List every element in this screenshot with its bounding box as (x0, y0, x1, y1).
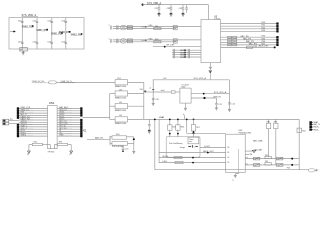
net label CHR_IN (213, 96, 221, 98)
U51 left pin 8 (GPIO2) (17, 123, 48, 126)
IC U52 body (180, 88, 191, 103)
U51 left pin 12 (BTN1) (17, 132, 48, 135)
fuse F52 (output) (309, 169, 317, 172)
TVS column wire 4 with capacitors (61, 18, 67, 49)
junction dot on SYS_VDD rail (142, 4, 144, 6)
capacitor C5A on +5V vertical (152, 99, 160, 102)
TVS/inductor rung 3 of ladder (110, 115, 144, 125)
net label SYS_VDD_A on feed (194, 77, 207, 80)
wire SYS_VDD right vertical (228, 80, 230, 110)
wire charger input (58, 81, 116, 83)
svg-text:g: g (233, 180, 234, 182)
net label CHR_5V_IN with fuse F51 (32, 81, 58, 84)
svg-text:L52: L52 (119, 115, 122, 117)
divider resistor R55 into pack (168, 119, 176, 138)
svg-text:MOS3: MOS3 (163, 156, 168, 158)
resistor R5M (58, 142, 68, 146)
ground (U5Z) (233, 175, 237, 181)
wire +5V feed vertical (152, 80, 154, 103)
svg-text:R54: R54 (116, 134, 119, 136)
svg-text:SYS_VDD_A: SYS_VDD_A (194, 77, 207, 80)
power flag on +5V vertical (149, 88, 155, 91)
svg-text:5V0: 5V0 (140, 89, 143, 91)
U51 left pin 10 (SCL_C) (17, 128, 48, 131)
TVS/inductor rung 1 of ladder (110, 89, 144, 99)
U5 left input row 2 with coupling caps (172, 51, 201, 54)
off-page connector BAT_TH (309, 123, 320, 126)
ladder right vertical wire (143, 82, 145, 119)
U5Z pin tick (245, 154, 252, 156)
sense divider R62 (266, 119, 270, 157)
U51 left pin 2 (SWD_IO) (17, 109, 48, 112)
wire U5Z source to ground (235, 173, 238, 176)
net label SYS_VDD_A (U52 out) (214, 91, 227, 94)
svg-text:R56: R56 (181, 127, 184, 129)
off-page connector PACK- (309, 128, 319, 131)
text label CMB (253, 140, 263, 143)
svg-text:EP GND: EP GND (48, 152, 55, 154)
U5 right pin row 4 to test pad (221, 30, 279, 33)
power flag (down arrow) above feed (209, 71, 212, 80)
crystal Y51 stub (82, 129, 86, 132)
U51 right pin 13 (VSS) (57, 135, 82, 138)
IC U5Z body (226, 134, 246, 172)
power flag + on VBAT (183, 113, 185, 120)
decoupling capacitor C59 with ground (179, 5, 188, 17)
resistor R58 row (159, 156, 226, 159)
U51 left pin 9 (SDA_C) (17, 125, 48, 129)
U5 right row 9 with resistor to junction dot (221, 44, 276, 48)
U5 right pin row 3 to test pad (221, 27, 279, 30)
svg-text:SYS_VDD_A: SYS_VDD_A (214, 91, 227, 94)
wire PACK_GNT (159, 150, 226, 153)
U5 left input row 1 with coupling caps (172, 49, 201, 52)
wire pack aux vertical (158, 119, 160, 162)
U5 right audio row 2 with series resistors to pad (221, 38, 279, 41)
gate network row 2 (U5Z) (245, 161, 299, 166)
U5Z gnd stub + flag (245, 148, 263, 152)
net label SYS_VDD_A (rail) (147, 2, 161, 5)
U51 left pin 5 (UART_TX) (17, 115, 48, 119)
TVS diode D52 (series box) (115, 78, 128, 88)
U51 left pin 4 (MIC_P) (17, 114, 48, 117)
power flag (U51 bottom left) (27, 151, 30, 156)
U51 right pin 12 (XO) (57, 132, 82, 135)
U5 right audio row 4 with series resistors to pad (221, 43, 279, 46)
wire DOUT (200, 146, 226, 148)
wire U52 gnd (184, 103, 186, 108)
battery inner cell box (188, 137, 199, 144)
U5Z pin names (227, 147, 230, 164)
U51 left pin 7 (GPIO1) (19, 121, 48, 123)
svg-text:PACK_GNT: PACK_GNT (203, 150, 214, 153)
diode label D53 SMBJ (51, 32, 63, 35)
U5 right pin row 2 to test pad (221, 25, 279, 28)
U51 right pin 11 (XI) (57, 130, 82, 133)
U51 left pin 6 (UART_RX) (19, 118, 48, 121)
U51 right pin 1 (BAT_ADC) (57, 106, 82, 110)
svg-text:+5V: +5V (163, 78, 167, 80)
svg-text:V2: V2 (69, 154, 71, 156)
ground (U5) (209, 67, 212, 69)
U51 right pin 7 (SPI_CS) (57, 121, 82, 124)
power flag (U51 bottom right) (69, 151, 72, 156)
wire U52 CHR_IN (191, 97, 216, 99)
U51 left pin 11 (INT1) (17, 130, 48, 133)
capacitor C5C to ground (228, 103, 236, 112)
svg-text:U51: U51 (49, 101, 55, 105)
off-page connector VBAT (309, 121, 319, 124)
svg-text:V1: V1 (27, 154, 29, 156)
wire SYS_VDD rail (top) (143, 4, 209, 6)
svg-text:BAT_CMB: BAT_CMB (253, 140, 263, 143)
net label +5V on feed (163, 78, 167, 80)
svg-text:D52: D52 (117, 78, 120, 80)
svg-text:PACK+: PACK+ (313, 126, 320, 129)
battery cell marks (188, 145, 198, 148)
svg-text:R62: R62 (267, 122, 270, 124)
svg-text:4: 4 (247, 157, 248, 159)
net label VBAT (159, 116, 165, 119)
wire to U5 pin (det) with dot and label (153, 45, 201, 48)
svg-text:CS: CS (227, 152, 229, 154)
svg-text:R52: R52 (34, 142, 37, 144)
net label SYS_VDD_A (top of TVS array) (22, 14, 39, 17)
U51 right pin 6 (KEY2) (57, 119, 82, 122)
svg-text:R64: R64 (302, 130, 305, 132)
resistor R5B (prog) (153, 91, 180, 93)
svg-text:SMBJ5.0CA: SMBJ5.0CA (115, 122, 127, 125)
IC U5 reference label (214, 16, 221, 21)
component J5A on box bottom edge (20, 48, 28, 52)
TVS array outline box (9, 18, 84, 49)
wire VBAT corner down (298, 119, 300, 169)
thermistor NTC51 (parallel bottom) (110, 142, 134, 149)
svg-text:DOUT: DOUT (204, 146, 210, 148)
decoupling capacitor C57 with ground (155, 5, 161, 17)
capacitor C5T (122, 145, 129, 152)
ground (below TVS box) (22, 51, 25, 55)
wire U51 bottom right (54, 145, 57, 149)
wire pack sense (186, 119, 226, 135)
TVS/inductor rung 2 of ladder (110, 102, 144, 112)
capacitor C5V on VBAT (148, 119, 151, 133)
svg-text:R60: R60 (265, 155, 268, 157)
TVS column wire 3 with capacitors (47, 18, 53, 49)
svg-text:VBAT: VBAT (159, 116, 165, 119)
ground (U52) (184, 108, 187, 110)
U51 right pin 2 (VDD_IO) (57, 109, 82, 112)
ladder left vertical wire (109, 94, 111, 120)
svg-text:DHG: DHG (163, 161, 168, 163)
svg-text:+5: +5 (149, 88, 151, 90)
svg-text:Gauge: Gauge (180, 147, 185, 149)
gate network row 1 (U5Z) (245, 155, 299, 160)
wire U5 GND (bottom pin) (209, 63, 211, 67)
diode label D55 SMBJ (71, 33, 83, 36)
U5 left input row 4 with coupling caps (172, 56, 201, 59)
svg-text:SMBJ5.0CA: SMBJ5.0CA (115, 109, 127, 112)
net label Lim5 (161, 90, 166, 92)
svg-text:R53: R53 (59, 142, 62, 144)
capacitor C5B to ground (215, 98, 223, 110)
wire to left flag (29, 145, 32, 152)
svg-text:ESD: ESD (149, 38, 154, 40)
sense divider R63 (274, 119, 278, 164)
wire to right flag (68, 145, 72, 152)
wire pack- vertical left (154, 119, 156, 170)
U51 bottom pin text (48, 152, 55, 154)
U5 right pin row 1 to test pad (221, 22, 279, 25)
U5Z internal pin column (238, 149, 240, 173)
TVS column wire 1 with capacitors (18, 18, 24, 49)
IC U51 body (48, 106, 58, 149)
thermistor network frame (110, 136, 134, 151)
svg-text:CHR_IN: CHR_IN (213, 96, 221, 98)
U51 right pin 8 (SPI_CLK) (57, 123, 82, 126)
svg-text:R52: R52 (155, 39, 158, 41)
diode label D54 SMBJ (59, 31, 71, 34)
wire SYS_VDD feed (top) (153, 79, 230, 81)
wire U51 to ladder (VBAT sense) (83, 116, 110, 118)
svg-text:J51: J51 (10, 119, 13, 121)
U51 left pin 3 (RST) (17, 112, 48, 115)
ground (+5V cap) (152, 100, 155, 106)
dashed stub with junction dot (left edge) (10, 31, 16, 33)
U5 left input row 3 with coupling caps (172, 53, 201, 56)
op IC U5 body (201, 20, 221, 63)
svg-text:SMBJ5.0CA: SMBJ5.0CA (115, 96, 127, 99)
svg-text:JACK_DET: JACK_DET (258, 44, 269, 47)
resistor R54 (parallel top) (110, 134, 134, 139)
svg-text:PACK-: PACK- (313, 128, 319, 131)
decoupling capacitor C58 with ground (167, 5, 173, 17)
U5 right audio row 1 with series resistors to pad (221, 36, 279, 39)
headphone jack row 2 (J52) (109, 38, 201, 43)
resistor R64 on output (297, 128, 306, 133)
wire BAT_TH (87, 137, 110, 140)
svg-text:5: 5 (247, 163, 248, 165)
U51 right pin 3 (LED1) (57, 112, 82, 115)
U5 right audio row 3 with series resistors to pad (221, 41, 279, 44)
resistor R57 into pack + (191, 119, 199, 138)
IC U5Z label (239, 130, 252, 134)
svg-text:Y51: Y51 (83, 129, 86, 131)
wire to ladder (128, 81, 144, 83)
svg-text:GND_BAT: GND_BAT (253, 148, 263, 151)
svg-text:HP_DET: HP_DET (166, 45, 175, 47)
svg-text:R63: R63 (274, 122, 277, 124)
svg-text:F5: F5 (21, 49, 23, 51)
TVS column wire 2 with capacitors (33, 18, 39, 49)
diode label D51 SMBJ (22, 25, 34, 28)
wire VBAT rail (144, 118, 299, 120)
divider resistor R56 into pack (176, 119, 184, 138)
net label CHR_5V_F (61, 81, 75, 83)
wire U51 bottom left (42, 145, 50, 149)
power flag 5V0 (140, 89, 147, 93)
wire PACK- (long bottom) (155, 167, 309, 169)
svg-text:LTC4054: LTC4054 (182, 85, 189, 87)
U51 right pin 5 (KEY1) (57, 116, 80, 118)
svg-text:C13: C13 (125, 149, 128, 151)
battery pack text (169, 142, 185, 149)
IC U51 reference label (49, 101, 55, 105)
svg-text:ESD: ESD (149, 25, 154, 27)
connector J51 (SWD) (3, 119, 19, 125)
svg-text:R61: R61 (265, 161, 268, 163)
U51 left pin 13 (GND2) (17, 135, 48, 138)
wire U52 out (SYS_VDD_A) (191, 93, 229, 95)
svg-text:R57: R57 (196, 127, 199, 129)
svg-text:L51: L51 (119, 102, 122, 104)
U51 right pin 4 (LED2) (57, 114, 82, 117)
headphone jack row 1 (J51) (109, 25, 201, 30)
U51 left pin 1 (SWD_CLK) (17, 107, 48, 110)
svg-text:Pack Gnd Matring: Pack Gnd Matring (169, 142, 183, 145)
svg-text:R51: R51 (155, 26, 158, 28)
wire U5 VDD (top pin) (207, 5, 209, 20)
off-page connector PACK+ (309, 126, 320, 129)
battery pack box BT51 (166, 137, 200, 158)
svg-text:L50: L50 (119, 89, 122, 91)
resistor R59 row (159, 161, 226, 164)
wire flag stub left (143, 91, 153, 93)
U51 right pin 10 (SPI_SO) (57, 128, 82, 131)
junction dot BAT_TH (133, 138, 135, 140)
output terminal tick (316, 169, 319, 172)
resistor R5L (32, 142, 42, 146)
IC U52 charger label (182, 85, 189, 89)
U51 right pin 9 (SPI_SI) (57, 126, 82, 129)
diode label D52 SMBJ (36, 29, 48, 32)
ground (thermistor) (132, 151, 135, 153)
svg-text:SMBJ5.0CA: SMBJ5.0CA (115, 85, 127, 88)
